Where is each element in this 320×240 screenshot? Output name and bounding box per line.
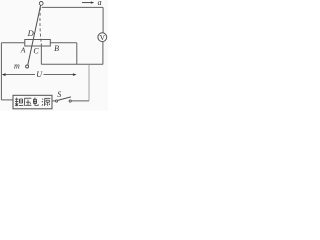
svg-text:V: V [100, 33, 106, 42]
wire B horizontal [50, 42, 77, 44]
wire slider tap vertical [40, 44, 42, 65]
svg-text:a: a [98, 0, 102, 7]
U dimension arrow [5, 74, 35, 76]
power supply box [13, 95, 52, 109]
switch lever [58, 97, 71, 101]
svg-text:A: A [20, 45, 26, 54]
wire left horizontal (A terminal) [1, 42, 24, 44]
svg-text:D: D [27, 28, 35, 38]
switch S right contact [69, 100, 71, 102]
rod (pendulum rod from pivot to m) [28, 5, 41, 65]
char 源 [42, 98, 51, 106]
wire switch to right corner [71, 100, 89, 102]
wire supply right to switch [52, 100, 55, 102]
voltmeter V [98, 33, 107, 42]
pivot O [39, 2, 43, 6]
wire supply left [1, 99, 13, 101]
wire B vertical [76, 43, 78, 65]
svg-text:C: C [33, 46, 39, 55]
char 电 [33, 98, 38, 106]
arrow a (acceleration arrow top right) [82, 2, 92, 4]
switch S left contact [56, 100, 58, 102]
wire top (pivot to top-right corner) [42, 6, 103, 8]
bob m [26, 65, 29, 68]
resistor box AB [25, 40, 51, 47]
svg-text:S: S [57, 90, 61, 99]
svg-text:B: B [54, 44, 59, 53]
char 稳 [15, 98, 23, 107]
char 压 [24, 98, 31, 106]
wire right upper (corner down to voltmeter) [102, 7, 104, 33]
wire right lower (voltmeter to corner) [102, 42, 104, 65]
wire middle horizontal [41, 63, 103, 65]
dashed plumb line [40, 7, 41, 43]
wire bottom right vertical [88, 64, 90, 101]
text 稳压电源 (hand drawn strokes) [15, 98, 50, 107]
wire left vertical [0, 43, 2, 100]
svg-text:m: m [14, 61, 20, 70]
